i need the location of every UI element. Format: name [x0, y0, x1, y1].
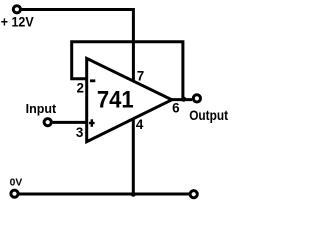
terminal 0V right	[190, 191, 197, 198]
input terminal	[44, 119, 51, 126]
junction node 0V rail	[131, 192, 136, 197]
supply terminal 0V left	[11, 190, 18, 197]
pin 4	[136, 117, 144, 132]
supply terminal +12V	[13, 6, 20, 13]
pin 7	[137, 69, 144, 84]
svg-text:0V: 0V	[10, 178, 23, 189]
output terminal	[193, 95, 200, 102]
svg-text:6: 6	[172, 100, 179, 115]
junction node output	[181, 97, 186, 102]
svg-text:Output: Output	[189, 107, 229, 123]
label Input	[26, 102, 57, 116]
svg-text:Input: Input	[26, 102, 57, 116]
svg-text:3: 3	[76, 125, 83, 140]
label Output	[189, 107, 229, 123]
wire input to pin 3	[53, 121, 87, 124]
pin 6	[172, 100, 179, 115]
svg-text:4: 4	[136, 117, 144, 132]
svg-text:+ 12V: + 12V	[1, 14, 34, 30]
inverting input marker minus	[90, 79, 95, 82]
pin 2	[77, 81, 84, 96]
label 741	[97, 86, 134, 113]
svg-text:7: 7	[137, 69, 144, 84]
pin 3	[76, 125, 83, 140]
wire +12V rail from terminal to pin 7	[22, 10, 134, 81]
wire feedback loop output node to pin 2	[72, 42, 183, 99]
svg-text:741: 741	[97, 86, 134, 113]
label 0V	[10, 178, 23, 189]
non-inverting input marker plus	[89, 119, 95, 127]
svg-text:2: 2	[77, 81, 84, 96]
wire pin 4 to 0V rail	[132, 116, 135, 194]
label +12V	[1, 14, 34, 30]
op-amp U1 triangle	[87, 58, 172, 141]
wire pin 6 to output terminal	[168, 98, 192, 101]
0V rail wire	[19, 193, 191, 196]
